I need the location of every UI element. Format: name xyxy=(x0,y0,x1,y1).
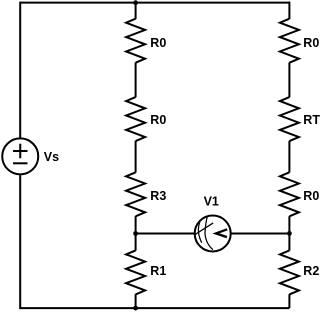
voltage source Vs xyxy=(2,138,38,174)
resistor R0 (middle top) xyxy=(126,19,145,63)
wire middle branch seg2 xyxy=(135,63,137,98)
wire left branch lower xyxy=(19,175,21,309)
resistor R2 xyxy=(280,250,299,294)
svg-text:Vs: Vs xyxy=(44,150,59,164)
svg-text:R0: R0 xyxy=(150,113,166,127)
svg-text:R3: R3 xyxy=(150,189,166,203)
node bridge right xyxy=(287,231,292,236)
wire right branch bottom stub xyxy=(288,294,290,308)
wire bottom rail xyxy=(20,307,289,309)
wire bridge left xyxy=(136,233,195,235)
svg-text:R0: R0 xyxy=(150,36,166,50)
voltmeter V1 xyxy=(194,216,230,252)
resistor R1 xyxy=(126,250,145,294)
resistor R0 (right top) xyxy=(280,19,299,63)
svg-text:V1: V1 xyxy=(204,194,219,208)
node bottom middle xyxy=(133,306,138,311)
wire middle branch bottom stub xyxy=(135,294,137,308)
wire right branch seg3 xyxy=(288,141,290,173)
wire left branch upper xyxy=(19,2,21,138)
wire middle branch seg4 xyxy=(135,216,137,251)
resistor RT xyxy=(280,97,299,141)
wire top rail xyxy=(20,2,289,4)
resistor R0 (middle second) xyxy=(126,97,145,141)
resistor R0 (right third) xyxy=(280,172,299,216)
wire right branch top stub xyxy=(288,2,290,19)
wire middle branch seg3 xyxy=(135,141,137,173)
wire right branch seg4 xyxy=(288,216,290,251)
wire middle branch top stub xyxy=(135,3,137,19)
svg-text:R0: R0 xyxy=(303,36,319,50)
svg-text:R2: R2 xyxy=(303,264,319,278)
svg-text:R0: R0 xyxy=(303,189,319,203)
node bridge left xyxy=(133,231,138,236)
svg-text:RT: RT xyxy=(303,113,320,127)
svg-text:R1: R1 xyxy=(150,264,166,278)
wire bridge right xyxy=(230,233,289,235)
resistor R3 xyxy=(126,172,145,216)
wire right branch seg2 xyxy=(288,63,290,98)
node top middle xyxy=(133,0,138,5)
